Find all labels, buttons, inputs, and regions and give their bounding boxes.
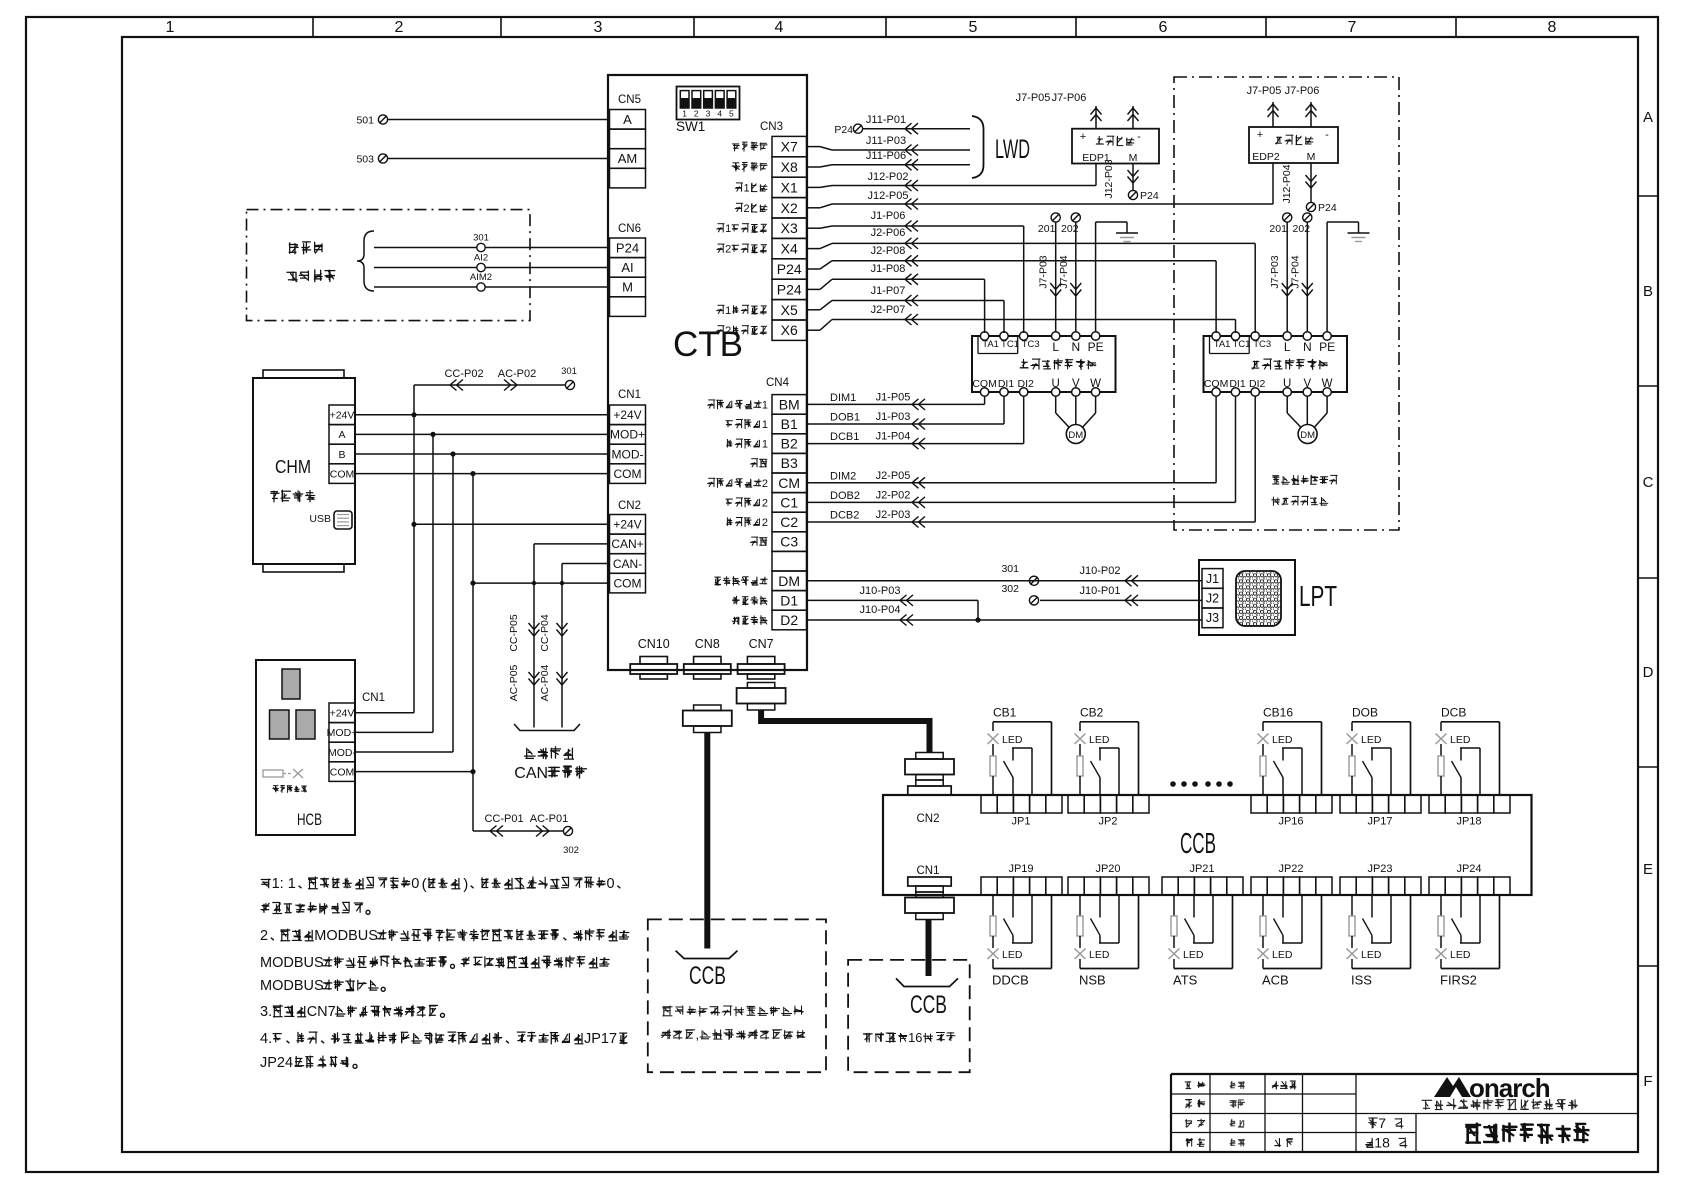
svg-text:L: L (1052, 340, 1059, 354)
svg-text:0: 0 (411, 876, 419, 892)
svg-text:,: , (696, 1027, 700, 1042)
svg-text:LED: LED (1361, 734, 1382, 746)
svg-text:AM: AM (618, 151, 638, 166)
svg-text:J2-P07: J2-P07 (871, 304, 906, 316)
svg-text:JP2: JP2 (1099, 816, 1118, 828)
svg-text:CC-P04: CC-P04 (539, 614, 551, 652)
svg-text:J2-P03: J2-P03 (876, 509, 911, 521)
svg-text:302: 302 (1001, 583, 1019, 595)
svg-text:X7: X7 (781, 139, 798, 155)
svg-text:4: 4 (717, 109, 722, 119)
svg-text:0: 0 (607, 876, 615, 892)
svg-text:7: 7 (1378, 1115, 1386, 1131)
svg-text:ACB: ACB (1262, 973, 1289, 988)
svg-text:ISS: ISS (1351, 973, 1372, 988)
svg-text:302: 302 (563, 845, 579, 856)
svg-text:J1-P06: J1-P06 (871, 210, 906, 222)
svg-text:P24: P24 (834, 124, 853, 136)
svg-text:C3: C3 (780, 534, 798, 550)
svg-text:1: 1 (682, 109, 687, 119)
svg-text:+: + (1257, 129, 1263, 141)
svg-text:LED: LED (1002, 949, 1023, 961)
svg-text:J10-P02: J10-P02 (1080, 565, 1121, 577)
svg-text:J10-P01: J10-P01 (1080, 585, 1121, 597)
svg-text:J7-P04: J7-P04 (1289, 255, 1301, 288)
svg-text:J1-P08: J1-P08 (871, 263, 906, 275)
svg-text:J2-P02: J2-P02 (876, 489, 911, 501)
svg-text:LED: LED (1089, 949, 1110, 961)
svg-text:DI2: DI2 (1249, 378, 1266, 390)
svg-text:): ) (463, 876, 468, 893)
svg-text:-: - (1325, 129, 1329, 141)
svg-text:CC-P05: CC-P05 (508, 614, 520, 652)
svg-text:M: M (1129, 152, 1138, 164)
svg-text:JP19: JP19 (1008, 863, 1033, 875)
svg-text:TC3: TC3 (1022, 339, 1040, 350)
svg-text:DIM1: DIM1 (830, 392, 856, 404)
svg-text:onarch: onarch (1469, 1073, 1550, 1103)
svg-text:C1: C1 (780, 494, 798, 510)
svg-text:J12-P02: J12-P02 (868, 171, 909, 183)
svg-text:202: 202 (1061, 223, 1079, 235)
svg-text:HCB: HCB (297, 810, 322, 829)
svg-text:B2: B2 (781, 436, 798, 452)
svg-text:J11-P01: J11-P01 (866, 114, 906, 126)
svg-text:1: 1 (762, 439, 768, 451)
svg-text:W: W (1322, 378, 1333, 390)
svg-text:P24: P24 (1318, 202, 1337, 214)
svg-text:+: + (1080, 131, 1086, 143)
svg-text:JP16: JP16 (1278, 816, 1303, 828)
svg-text:J7-P05: J7-P05 (1016, 92, 1051, 104)
svg-text:CCB: CCB (689, 962, 726, 990)
svg-text:J2-P05: J2-P05 (876, 470, 911, 482)
svg-text:B: B (338, 449, 345, 461)
svg-text:J7-P03: J7-P03 (1269, 255, 1281, 288)
svg-text:2: 2 (260, 928, 268, 944)
svg-text:-: - (1137, 131, 1141, 143)
svg-text:B1: B1 (781, 416, 798, 432)
svg-text:LED: LED (1450, 734, 1471, 746)
svg-text:DOB: DOB (1352, 705, 1378, 719)
svg-text:M: M (1307, 151, 1316, 163)
svg-text:N: N (1071, 340, 1080, 354)
svg-text:CN1: CN1 (916, 865, 939, 877)
svg-text:301: 301 (1001, 563, 1019, 575)
svg-text:COM: COM (330, 468, 355, 480)
svg-text:JP17: JP17 (1367, 816, 1392, 828)
svg-text:L: L (1284, 340, 1291, 354)
svg-text:J3: J3 (1206, 611, 1219, 625)
svg-text:201: 201 (1269, 223, 1287, 235)
svg-text:X2: X2 (781, 200, 798, 216)
svg-text:DI1: DI1 (998, 378, 1015, 390)
svg-text:+24V: +24V (613, 518, 641, 532)
svg-text:X1: X1 (781, 179, 798, 195)
svg-text:DDCB: DDCB (992, 973, 1029, 988)
svg-text:MOD+: MOD+ (327, 727, 358, 739)
svg-text:TA1: TA1 (982, 339, 999, 350)
svg-text:2: 2 (725, 325, 731, 337)
svg-text:USB: USB (309, 513, 331, 525)
svg-text:1: 1 (762, 399, 768, 411)
svg-text:LED: LED (1361, 949, 1382, 961)
svg-text:P24: P24 (777, 281, 802, 297)
svg-text:X4: X4 (781, 241, 798, 257)
svg-text:V: V (1303, 378, 1311, 390)
svg-text:J11-P03: J11-P03 (866, 135, 906, 147)
svg-text:JP22: JP22 (1278, 863, 1303, 875)
svg-text:V: V (1072, 378, 1080, 390)
svg-text:J7-P06: J7-P06 (1285, 85, 1320, 97)
svg-text:16: 16 (908, 1030, 922, 1045)
svg-text:J2-P08: J2-P08 (871, 245, 906, 257)
svg-text:JP24: JP24 (1456, 863, 1481, 875)
svg-text:3: 3 (706, 109, 711, 119)
svg-text:N: N (1303, 340, 1312, 354)
svg-text:CCB: CCB (910, 991, 947, 1019)
svg-text:COM: COM (614, 576, 642, 590)
svg-text:CB1: CB1 (993, 705, 1017, 719)
svg-text:J11-P06: J11-P06 (866, 150, 906, 162)
svg-text:3: 3 (594, 19, 603, 36)
svg-text:C: C (1643, 474, 1654, 491)
svg-text:MODBUS: MODBUS (314, 928, 378, 944)
svg-text:J1-P05: J1-P05 (876, 391, 911, 403)
svg-text:CB16: CB16 (1263, 705, 1293, 719)
svg-text:JP17: JP17 (584, 1031, 617, 1047)
svg-text:CN7: CN7 (749, 637, 774, 651)
svg-text:CN6: CN6 (618, 223, 641, 235)
svg-text:CN3: CN3 (760, 121, 783, 133)
svg-text:CN10: CN10 (638, 637, 670, 651)
svg-text:2: 2 (762, 478, 768, 490)
svg-text:1: 1 (166, 19, 175, 36)
svg-text:2: 2 (744, 203, 750, 215)
svg-text:(: ( (422, 876, 427, 893)
svg-text:CN8: CN8 (695, 637, 720, 651)
svg-text:E: E (1643, 861, 1653, 878)
svg-text:J7-P06: J7-P06 (1052, 92, 1087, 104)
svg-text:DCB1: DCB1 (830, 431, 859, 443)
svg-text:PE: PE (1319, 340, 1335, 354)
svg-text:+24V: +24V (330, 708, 355, 720)
svg-text:TC1: TC1 (1233, 339, 1251, 350)
svg-text:CAN-: CAN- (613, 557, 642, 571)
svg-text:D2: D2 (780, 612, 798, 628)
svg-text:DI1: DI1 (1229, 378, 1246, 390)
svg-text:X3: X3 (781, 220, 798, 236)
svg-text:6: 6 (1159, 19, 1168, 36)
svg-text:AC-P01: AC-P01 (530, 813, 569, 825)
svg-text:AC-P04: AC-P04 (539, 664, 551, 701)
svg-text:AI2: AI2 (474, 253, 488, 264)
svg-text:LED: LED (1002, 734, 1023, 746)
svg-text:2: 2 (762, 517, 768, 529)
svg-text:503: 503 (356, 154, 374, 166)
svg-text:P24: P24 (1140, 190, 1159, 202)
svg-text:2: 2 (694, 109, 699, 119)
svg-text:AIM2: AIM2 (470, 272, 492, 283)
svg-text:MODBUS: MODBUS (260, 955, 324, 971)
svg-text:FIRS2: FIRS2 (1440, 973, 1477, 988)
svg-text:7: 7 (1348, 19, 1357, 36)
svg-text:A: A (1643, 109, 1653, 126)
svg-text:COM: COM (972, 378, 997, 390)
svg-text:DI2: DI2 (1018, 378, 1035, 390)
svg-text:J7-P05: J7-P05 (1247, 85, 1282, 97)
svg-text:U: U (1052, 378, 1060, 390)
svg-text:TC3: TC3 (1253, 339, 1271, 350)
svg-text:C2: C2 (780, 514, 798, 530)
svg-text:301: 301 (473, 233, 489, 244)
svg-text:MOD-: MOD- (328, 747, 356, 759)
svg-text:1: 1: 1: 1 (272, 876, 296, 892)
svg-text:J12-P03: J12-P03 (1103, 159, 1115, 198)
svg-text:501: 501 (356, 115, 374, 127)
svg-text:BM: BM (779, 396, 800, 412)
svg-text:CAN: CAN (514, 765, 548, 782)
svg-text:CN2: CN2 (618, 500, 641, 512)
svg-text:LED: LED (1450, 949, 1471, 961)
svg-text:CC-P02: CC-P02 (444, 368, 483, 380)
svg-text:301: 301 (561, 366, 577, 377)
svg-text:LED: LED (1272, 734, 1293, 746)
svg-text:AC-P05: AC-P05 (508, 664, 520, 701)
svg-text:J12-P04: J12-P04 (1281, 164, 1293, 203)
svg-text:P24: P24 (777, 261, 802, 277)
svg-text:J10-P04: J10-P04 (860, 604, 901, 616)
svg-text:CAN+: CAN+ (611, 537, 643, 551)
svg-text:A: A (338, 429, 345, 441)
svg-text:COM: COM (614, 467, 642, 481)
svg-text:LWD: LWD (995, 134, 1030, 164)
svg-text:J1-P03: J1-P03 (876, 411, 911, 423)
svg-text:DM: DM (778, 573, 800, 589)
svg-text:TC1: TC1 (1001, 339, 1019, 350)
svg-text:J1-P07: J1-P07 (871, 285, 906, 297)
svg-text:AC-P02: AC-P02 (498, 368, 537, 380)
svg-text:DIM2: DIM2 (830, 470, 856, 482)
svg-text:CN5: CN5 (618, 94, 641, 106)
svg-text:X5: X5 (781, 302, 798, 318)
svg-text:J1: J1 (1206, 572, 1219, 586)
svg-text:5: 5 (969, 19, 978, 36)
svg-text:MODBUS: MODBUS (260, 978, 324, 994)
svg-text:X8: X8 (781, 159, 798, 175)
svg-text:TA1: TA1 (1214, 339, 1231, 350)
svg-text:JP21: JP21 (1189, 863, 1214, 875)
svg-text:M: M (622, 280, 633, 295)
svg-text:NSB: NSB (1079, 973, 1106, 988)
svg-text:B3: B3 (781, 455, 798, 471)
svg-text:JP23: JP23 (1367, 863, 1392, 875)
svg-text:CB2: CB2 (1080, 705, 1104, 719)
svg-text:1: 1 (725, 305, 731, 317)
svg-text:CM: CM (778, 475, 800, 491)
svg-text:LED: LED (1089, 734, 1110, 746)
svg-text:U: U (1283, 378, 1291, 390)
svg-text:J12-P05: J12-P05 (868, 190, 909, 202)
svg-text:D: D (1643, 664, 1654, 681)
svg-text:3.: 3. (260, 1004, 272, 1020)
svg-text:CN2: CN2 (916, 813, 939, 825)
svg-text:X6: X6 (781, 322, 798, 338)
svg-text:W: W (1090, 378, 1101, 390)
svg-text:B: B (1643, 283, 1653, 300)
svg-text:18: 18 (1374, 1135, 1390, 1151)
svg-text:CN1: CN1 (618, 389, 641, 401)
svg-text:2: 2 (395, 19, 404, 36)
svg-text:CN4: CN4 (766, 377, 790, 389)
svg-text:DOB2: DOB2 (830, 490, 860, 502)
svg-text:1: 1 (744, 182, 750, 194)
svg-text:1: 1 (725, 223, 731, 235)
svg-text:SW1: SW1 (676, 119, 705, 134)
svg-text:CCB: CCB (1180, 828, 1216, 860)
svg-text:5: 5 (729, 109, 734, 119)
svg-text:F: F (1643, 1073, 1652, 1090)
svg-text:EDP2: EDP2 (1252, 151, 1280, 163)
svg-text:1: 1 (762, 419, 768, 431)
svg-text:DOB1: DOB1 (830, 412, 860, 424)
svg-text:+24V: +24V (613, 408, 641, 422)
svg-text:2: 2 (725, 244, 731, 256)
svg-text:J10-P03: J10-P03 (860, 585, 901, 597)
svg-text:MOD+: MOD+ (610, 428, 645, 442)
svg-text:AI: AI (621, 260, 633, 275)
svg-text:ATS: ATS (1173, 973, 1198, 988)
svg-text:+24V: +24V (330, 410, 355, 422)
svg-text:JP24: JP24 (260, 1055, 293, 1071)
svg-text:4: 4 (775, 19, 784, 36)
svg-text:CHM: CHM (275, 456, 311, 477)
svg-text:CTB: CTB (673, 325, 743, 364)
svg-text:COM: COM (330, 766, 355, 778)
svg-text:J2: J2 (1206, 592, 1219, 606)
svg-text:COM: COM (1204, 378, 1229, 390)
svg-text:P24: P24 (616, 241, 639, 256)
svg-text:JP1: JP1 (1012, 816, 1031, 828)
svg-text:CN7: CN7 (307, 1004, 336, 1020)
svg-text:4.: 4. (260, 1031, 272, 1047)
svg-text:2: 2 (762, 497, 768, 509)
svg-text:LED: LED (1272, 949, 1293, 961)
svg-text:CN1: CN1 (362, 692, 385, 704)
svg-text:201: 201 (1038, 223, 1056, 235)
svg-text:A: A (623, 112, 632, 127)
svg-text:CC-P01: CC-P01 (484, 813, 523, 825)
svg-text:PE: PE (1088, 340, 1104, 354)
svg-text:J2-P06: J2-P06 (871, 227, 906, 239)
svg-text:J1-P04: J1-P04 (876, 431, 911, 443)
svg-text:LPT: LPT (1299, 581, 1337, 613)
svg-text:MOD-: MOD- (612, 447, 644, 461)
svg-text:LED: LED (1183, 949, 1204, 961)
svg-text:202: 202 (1293, 223, 1311, 235)
svg-text:DM: DM (1300, 430, 1315, 441)
svg-text:D1: D1 (780, 592, 798, 608)
svg-text:JP20: JP20 (1095, 863, 1120, 875)
svg-text:8: 8 (1548, 19, 1557, 36)
svg-text:DCB2: DCB2 (830, 510, 859, 522)
svg-text:DM: DM (1068, 430, 1083, 441)
svg-text:JP18: JP18 (1456, 816, 1481, 828)
svg-text:DCB: DCB (1441, 705, 1466, 719)
